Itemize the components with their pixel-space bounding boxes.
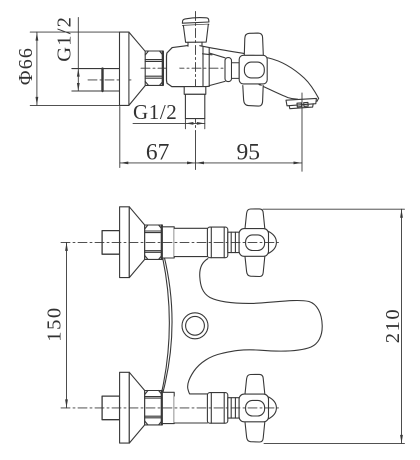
wall pipe centerline <box>88 79 131 81</box>
escutcheon flange (side view) <box>120 32 129 105</box>
upper arm pipe <box>174 228 207 256</box>
diverter knob (side view) <box>182 18 209 47</box>
dim line 67/95 <box>120 162 302 165</box>
dim 210 dimension line <box>400 209 403 443</box>
svg-text:G1/2: G1/2 <box>133 100 177 124</box>
upper connector <box>163 227 174 258</box>
lower wall pipe <box>102 396 120 420</box>
lower handle blades <box>245 374 265 442</box>
dim 150 dimension line <box>65 242 68 408</box>
lower ridged collar <box>228 398 239 418</box>
outlet G1/2 dimension <box>133 119 205 129</box>
lower connector <box>163 392 174 423</box>
svg-text:95: 95 <box>237 139 261 165</box>
svg-text:210: 210 <box>382 308 404 344</box>
faucet body (side view) <box>167 46 213 87</box>
G1/2 dimension line (pipe thread) <box>77 18 80 92</box>
svg-text:Φ66: Φ66 <box>15 47 37 85</box>
dim 210 extension lines <box>263 209 405 443</box>
faucet body outline (plan) <box>188 259 323 395</box>
lower handle hub <box>239 394 276 422</box>
escutcheon cone (side view) <box>129 32 145 105</box>
upper handle hub <box>239 229 276 257</box>
dim Phi66 dimension line <box>36 32 39 105</box>
svg-text:150: 150 <box>43 306 65 342</box>
shower outlet drop (side view) <box>184 87 206 119</box>
upper hex nut <box>145 225 162 259</box>
spout silhouette double arc <box>162 255 172 395</box>
faucet axis centerline (side view) <box>141 67 225 69</box>
upper handle blades <box>245 209 265 277</box>
lower inlet centerline <box>61 407 279 409</box>
lower cone <box>129 372 144 443</box>
upper inlet centerline <box>61 241 279 243</box>
wall pipe G1/2 (side view) <box>72 69 120 91</box>
dim Phi66 extension lines <box>30 32 119 105</box>
upper flange <box>120 207 130 278</box>
spout (side view) <box>212 48 319 101</box>
upper wall pipe <box>102 231 120 255</box>
diverter knob circle (plan) <box>182 313 208 339</box>
upper valve collar <box>207 227 227 258</box>
dim 67 / 95 extension lines <box>120 93 302 171</box>
valve bonnet (side view) <box>209 53 239 86</box>
upper ridged collar <box>228 232 239 252</box>
cross handle (side view) <box>239 33 267 106</box>
lower valve collar <box>207 393 227 424</box>
spout mouth / aerator <box>286 98 316 108</box>
upper cone <box>129 207 144 278</box>
svg-text:67: 67 <box>146 139 170 165</box>
lower flange <box>120 372 130 443</box>
svg-text:G1/2: G1/2 <box>53 16 75 62</box>
lower arm pipe <box>174 394 207 423</box>
lower hex nut <box>145 391 162 425</box>
hex nut (side view) <box>145 51 163 85</box>
knob vertical centerline <box>195 12 197 132</box>
